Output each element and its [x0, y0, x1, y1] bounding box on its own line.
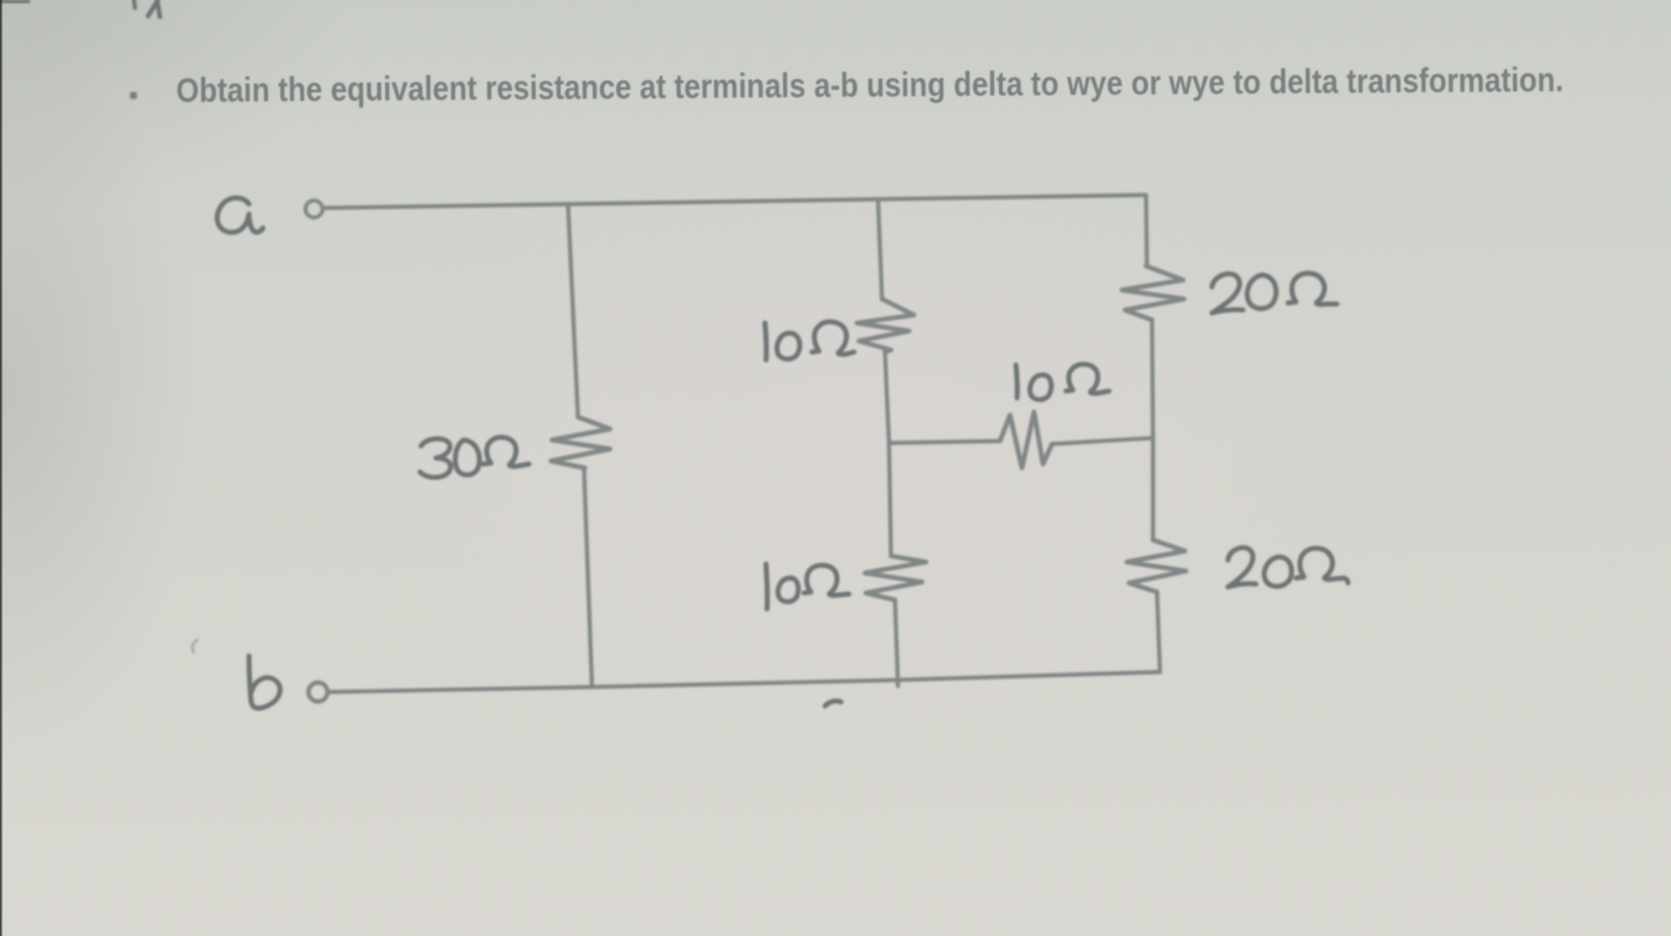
- wire left branch lower lead: [584, 468, 592, 687]
- terminal b handwritten label: [249, 656, 280, 708]
- label R5 value 20ohm upper-right: [1212, 274, 1243, 313]
- label R2 value 10ohm upper-middle: [765, 323, 766, 360]
- wire right branch top lead: [1146, 195, 1147, 266]
- label R6 value 20ohm lower-right: [1228, 548, 1256, 587]
- top-left corner dark wedge: [0, 0, 30, 3]
- resistor R4 10ohm lower-middle zigzag: [865, 556, 926, 600]
- wire middle branch bottom lead: [895, 600, 898, 686]
- wire left branch upper lead: [568, 204, 578, 417]
- wire top from a to top-right corner: [323, 195, 1146, 208]
- faint pen tick left of b: [192, 640, 197, 652]
- terminal a handwritten label: [217, 198, 263, 233]
- cropped glyph tick top edge: [134, 0, 135, 8]
- terminal a: [306, 201, 323, 218]
- problem statement dot: [130, 92, 137, 99]
- cropped glyph lambda top edge: [148, 0, 160, 17]
- resistor R3 10ohm horizontal zigzag: [1000, 412, 1052, 468]
- wire right branch bottom lead: [1157, 592, 1160, 672]
- wire middle branch mid segment: [885, 352, 891, 556]
- resistor R2 10ohm upper-middle zigzag: [857, 299, 914, 352]
- wire middle horizontal right lead: [1052, 438, 1153, 444]
- label R4 value 10ohm lower-middle: [766, 564, 767, 609]
- wire bottom from bottom-right corner to b: [329, 672, 1160, 692]
- wire middle horizontal left lead: [889, 441, 1000, 443]
- wire middle branch top lead: [878, 199, 882, 299]
- wire right branch mid segment: [1152, 320, 1153, 540]
- resistor R5 20ohm upper zigzag: [1122, 266, 1184, 320]
- terminal b: [309, 683, 328, 702]
- resistor R6 20ohm lower zigzag: [1127, 540, 1186, 592]
- resistor R1 30ohm zigzag: [551, 417, 610, 468]
- problem statement title: [176, 61, 1564, 111]
- stray pen mark below bottom wire: [825, 701, 841, 706]
- label R3 value 10ohm horizontal: [1016, 365, 1017, 398]
- label R1 value 30ohm: [420, 439, 451, 478]
